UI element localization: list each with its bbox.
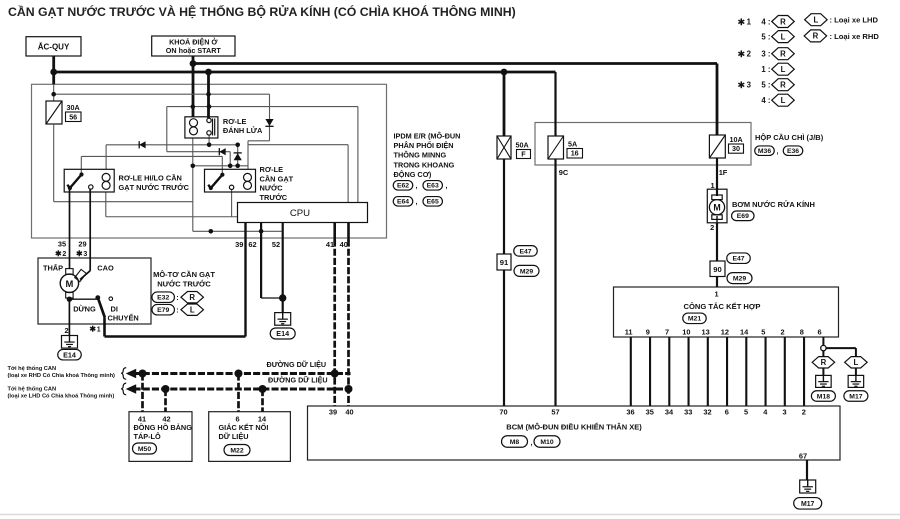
svg-text:3: 3 <box>83 251 87 258</box>
svg-text:,: , <box>416 183 418 190</box>
svg-text:2: 2 <box>747 50 752 59</box>
svg-text:ĐỒNG HỒ BẢNG: ĐỒNG HỒ BẢNG <box>134 422 193 432</box>
svg-text:MÔ-TƠ CẦN GẠT: MÔ-TƠ CẦN GẠT <box>153 269 215 279</box>
svg-text:E14: E14 <box>63 350 76 359</box>
svg-text:L: L <box>190 306 195 315</box>
svg-text:12: 12 <box>721 328 729 337</box>
svg-text:90: 90 <box>713 265 721 274</box>
svg-text:4 :: 4 : <box>761 96 770 105</box>
svg-text:PHÂN PHỐI ĐIỆN: PHÂN PHỐI ĐIỆN <box>394 140 454 150</box>
svg-text:Tới hệ thống CAN: Tới hệ thống CAN <box>8 386 57 393</box>
svg-text:4 :: 4 : <box>761 17 770 26</box>
svg-text:E64: E64 <box>397 199 409 206</box>
svg-text:13: 13 <box>701 328 709 337</box>
svg-text:5A: 5A <box>568 140 577 149</box>
svg-text:L: L <box>814 16 819 25</box>
svg-text:30: 30 <box>732 144 740 153</box>
svg-text:E79: E79 <box>157 307 169 314</box>
svg-text:L: L <box>781 32 786 41</box>
svg-text:2: 2 <box>781 328 785 337</box>
svg-text:1: 1 <box>710 181 714 190</box>
svg-text:3 :: 3 : <box>761 50 770 59</box>
svg-text:35: 35 <box>58 240 66 249</box>
svg-text:BƠM NƯỚC RỬA KÍNH: BƠM NƯỚC RỬA KÍNH <box>732 200 815 209</box>
svg-text:,: , <box>531 440 533 447</box>
svg-text:30A: 30A <box>67 103 80 112</box>
svg-text:E47: E47 <box>519 248 531 255</box>
svg-text:E32: E32 <box>157 295 169 302</box>
svg-text:GIẮC KẾT NỐI: GIẮC KẾT NỐI <box>219 422 269 432</box>
svg-text:Tới hệ thống CAN: Tới hệ thống CAN <box>8 365 57 372</box>
svg-text:1 :: 1 : <box>761 65 770 74</box>
svg-text:R: R <box>780 50 786 59</box>
svg-text:33: 33 <box>684 408 692 417</box>
svg-text:CPU: CPU <box>290 208 310 219</box>
svg-text:M17: M17 <box>849 393 862 400</box>
svg-text:6: 6 <box>725 408 729 417</box>
svg-text:THẤP: THẤP <box>43 263 63 273</box>
svg-text:L: L <box>781 65 786 74</box>
svg-text:91: 91 <box>500 258 509 267</box>
svg-text:GẠT NƯỚC TRƯỚC: GẠT NƯỚC TRƯỚC <box>119 183 190 192</box>
svg-text:5: 5 <box>744 408 748 417</box>
svg-text:M50: M50 <box>138 446 151 453</box>
svg-text:39: 39 <box>329 408 337 417</box>
svg-text::: : <box>176 293 178 302</box>
svg-text:TRƯỚC: TRƯỚC <box>260 193 288 202</box>
svg-text:CẦN GẠT: CẦN GẠT <box>260 173 294 183</box>
svg-text:ĐƯỜNG DỮ LIỆU: ĐƯỜNG DỮ LIỆU <box>268 375 328 384</box>
svg-text:39: 39 <box>235 240 243 249</box>
svg-text:11: 11 <box>625 328 633 337</box>
svg-text:ON hoặc START: ON hoặc START <box>166 46 222 55</box>
svg-text:9C: 9C <box>559 168 569 177</box>
svg-text:1: 1 <box>714 290 718 299</box>
svg-text:,: , <box>416 199 418 206</box>
svg-text:M18: M18 <box>817 393 830 400</box>
svg-text:62: 62 <box>248 240 256 249</box>
svg-text:E63: E63 <box>427 183 439 190</box>
svg-text:1F: 1F <box>719 168 728 177</box>
svg-text:ĐỘNG CƠ): ĐỘNG CƠ) <box>394 170 432 179</box>
svg-text:E69: E69 <box>737 213 749 220</box>
svg-text:ĐÁNH LỬA: ĐÁNH LỬA <box>223 126 263 135</box>
svg-text:DỪNG: DỪNG <box>73 305 96 314</box>
svg-text:E14: E14 <box>276 329 289 338</box>
svg-text:F: F <box>521 150 526 159</box>
svg-text:THÔNG MINNG: THÔNG MINNG <box>394 151 447 160</box>
svg-text:10: 10 <box>682 328 690 337</box>
svg-text:32: 32 <box>703 408 711 417</box>
svg-text:HỘP CẦU CHÌ (J/B): HỘP CẦU CHÌ (J/B) <box>755 132 824 142</box>
svg-text:(loại xe LHD Có Chìa khoá Thôn: (loại xe LHD Có Chìa khoá Thông minh) <box>8 394 115 400</box>
svg-text:KHOÁ ĐIỆN Ở: KHOÁ ĐIỆN Ở <box>169 38 218 47</box>
svg-text:35: 35 <box>646 408 654 417</box>
svg-text:1: 1 <box>97 326 101 333</box>
svg-text:M: M <box>713 202 720 212</box>
svg-text:36: 36 <box>626 408 634 417</box>
svg-text:R: R <box>821 358 827 367</box>
svg-text:R: R <box>780 81 786 90</box>
svg-text:R: R <box>780 17 786 26</box>
svg-text:IPDM E/R (MÔ-ĐUN: IPDM E/R (MÔ-ĐUN <box>394 132 461 141</box>
svg-text:NƯỚC: NƯỚC <box>260 184 284 193</box>
svg-text:2: 2 <box>64 326 68 335</box>
svg-text:M17: M17 <box>801 501 815 508</box>
svg-text:40: 40 <box>345 408 353 417</box>
svg-text:BCM (MÔ-ĐUN ĐIỀU KHIỂN THÂN XE: BCM (MÔ-ĐUN ĐIỀU KHIỂN THÂN XE) <box>506 422 642 432</box>
svg-text:CÔNG TẮC KẾT HỢP: CÔNG TẮC KẾT HỢP <box>684 301 761 311</box>
svg-text:M21: M21 <box>688 316 701 323</box>
svg-text:5 :: 5 : <box>761 81 770 90</box>
svg-text:: Loại xe RHD: : Loại xe RHD <box>830 32 880 41</box>
svg-text:16: 16 <box>571 149 579 158</box>
svg-text:CHUYỂN: CHUYỂN <box>108 314 139 323</box>
svg-text:1: 1 <box>747 18 752 27</box>
svg-text:2: 2 <box>802 408 806 417</box>
svg-text:57: 57 <box>551 408 559 417</box>
svg-text:41: 41 <box>326 240 334 249</box>
svg-text:M29: M29 <box>733 276 746 283</box>
svg-text:M8: M8 <box>510 439 520 446</box>
svg-text:M29: M29 <box>520 268 533 275</box>
svg-text:67: 67 <box>799 452 807 461</box>
svg-text:34: 34 <box>665 408 674 417</box>
svg-text:RƠ-LE HI/LO CẦN: RƠ-LE HI/LO CẦN <box>119 173 182 183</box>
svg-text::: : <box>176 306 178 315</box>
svg-text:70: 70 <box>499 408 507 417</box>
svg-text:L: L <box>781 96 786 105</box>
svg-text:NƯỚC TRƯỚC: NƯỚC TRƯỚC <box>157 280 211 289</box>
svg-text:M36: M36 <box>758 148 771 155</box>
svg-text:10A: 10A <box>730 135 743 144</box>
svg-text:(loại xe RHD Có Chìa khoá Thôn: (loại xe RHD Có Chìa khoá Thông minh) <box>8 373 116 379</box>
svg-text:E47: E47 <box>732 256 744 263</box>
svg-text:ĐƯỜNG DỮ LIỆU: ĐƯỜNG DỮ LIỆU <box>267 360 327 369</box>
svg-text:5: 5 <box>761 328 765 337</box>
svg-text:56: 56 <box>69 112 77 121</box>
svg-text:M10: M10 <box>540 439 553 446</box>
svg-text:M: M <box>65 278 73 289</box>
svg-text:2: 2 <box>710 223 714 232</box>
svg-text:29: 29 <box>78 240 86 249</box>
svg-text:E36: E36 <box>787 148 799 155</box>
svg-text:R: R <box>813 32 819 41</box>
svg-text:TÁP-LÔ: TÁP-LÔ <box>134 432 161 441</box>
svg-text:E65: E65 <box>427 199 439 206</box>
svg-text:R: R <box>189 293 195 302</box>
svg-text:M22: M22 <box>230 447 243 454</box>
svg-text:CAO: CAO <box>97 264 114 273</box>
svg-text:3: 3 <box>782 408 786 417</box>
svg-text:52: 52 <box>272 240 280 249</box>
svg-text:TRONG KHOANG: TRONG KHOANG <box>394 160 455 169</box>
svg-text:5 :: 5 : <box>761 32 770 41</box>
svg-text:14: 14 <box>740 328 749 337</box>
svg-text:2: 2 <box>62 251 66 258</box>
svg-text:DỮ LIỆU: DỮ LIỆU <box>219 432 249 441</box>
svg-text:L: L <box>854 358 859 367</box>
svg-text:: Loại xe LHD: : Loại xe LHD <box>830 16 879 25</box>
svg-text:CẦN GẠT NƯỚC TRƯỚC VÀ HỆ THỐNG: CẦN GẠT NƯỚC TRƯỚC VÀ HỆ THỐNG BỘ RỬA KÍ… <box>8 4 516 19</box>
svg-text:7: 7 <box>665 328 669 337</box>
svg-text:DI: DI <box>111 305 118 314</box>
svg-text:,: , <box>446 183 448 190</box>
svg-text:6: 6 <box>817 328 821 337</box>
svg-text:40: 40 <box>340 240 348 249</box>
svg-text:9: 9 <box>646 328 650 337</box>
svg-text:8: 8 <box>800 328 804 337</box>
svg-text:RƠ-LE: RƠ-LE <box>223 117 247 126</box>
svg-text:ẮC-QUY: ẮC-QUY <box>38 43 70 52</box>
svg-text:50A: 50A <box>516 141 529 150</box>
svg-text:3: 3 <box>747 81 752 90</box>
svg-text:E62: E62 <box>397 183 409 190</box>
svg-text:,: , <box>777 149 779 156</box>
svg-text:RƠ-LE: RƠ-LE <box>260 165 284 174</box>
